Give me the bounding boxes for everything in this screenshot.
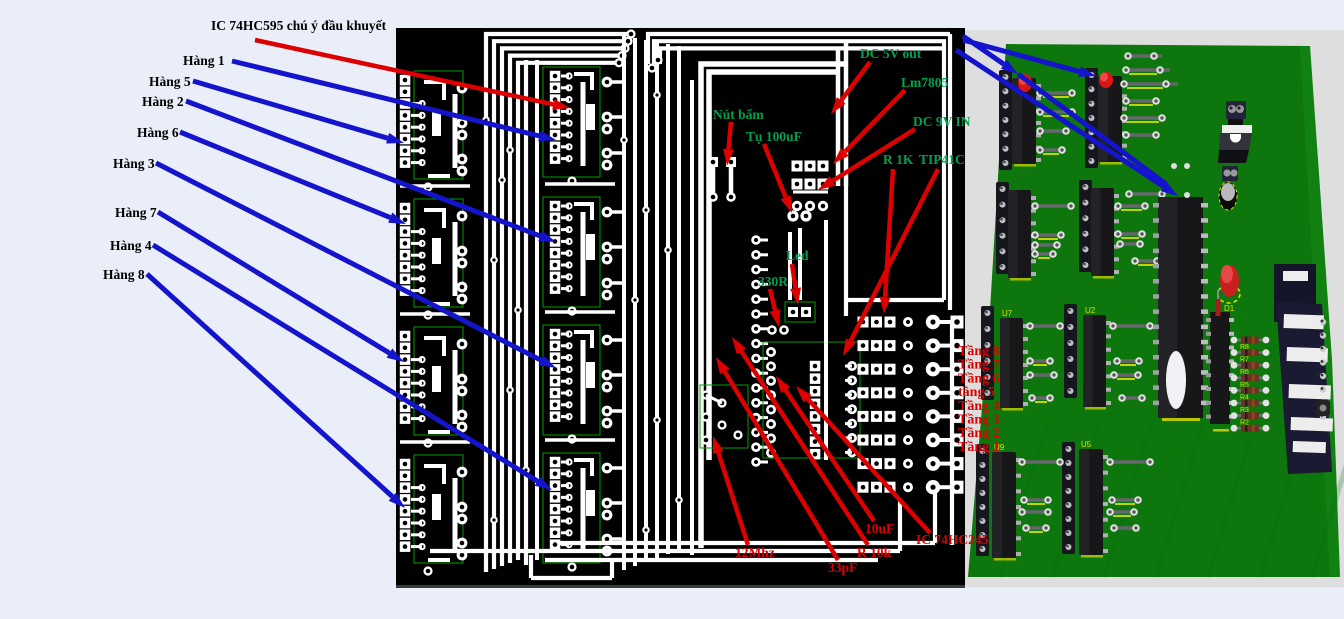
svg-text:TIP41C: TIP41C [919, 152, 965, 167]
svg-text:Lm7805: Lm7805 [901, 75, 949, 90]
svg-text:Hàng 2: Hàng 2 [142, 94, 184, 109]
svg-text:D1: D1 [1224, 304, 1235, 313]
svg-text:Tầng 1: Tầng 1 [958, 440, 1000, 455]
svg-text:33pF: 33pF [828, 560, 857, 575]
svg-text:Hàng 6: Hàng 6 [137, 125, 179, 140]
svg-text:R 10k: R 10k [857, 545, 892, 560]
svg-text:U2: U2 [1085, 306, 1096, 315]
svg-text:U5: U5 [1081, 440, 1092, 449]
svg-text:Hàng 5: Hàng 5 [149, 74, 191, 89]
svg-text:330R: 330R [758, 274, 788, 289]
svg-text:Led: Led [786, 248, 809, 263]
svg-text:DC 9V IN: DC 9V IN [913, 114, 971, 129]
svg-text:Tụ 100uF: Tụ 100uF [746, 129, 802, 144]
svg-text:Hàng 8: Hàng 8 [103, 267, 145, 282]
svg-text:Hàng 3: Hàng 3 [113, 156, 155, 171]
svg-text:Nút bấm: Nút bấm [713, 107, 764, 122]
svg-text:IC 74HC595 chú ý đầu khuyết: IC 74HC595 chú ý đầu khuyết [211, 18, 387, 33]
svg-text:DC 5V out: DC 5V out [860, 46, 922, 61]
svg-text:IC 74HC245: IC 74HC245 [916, 532, 989, 547]
svg-text:Hàng 4: Hàng 4 [110, 238, 152, 253]
svg-text:U7: U7 [1002, 309, 1013, 318]
svg-text:12Mhz: 12Mhz [735, 545, 775, 560]
svg-text:R 1K: R 1K [883, 152, 914, 167]
svg-text:10uF: 10uF [865, 521, 894, 536]
svg-text:Hàng 1: Hàng 1 [183, 53, 225, 68]
svg-text:Hàng 7: Hàng 7 [115, 205, 157, 220]
